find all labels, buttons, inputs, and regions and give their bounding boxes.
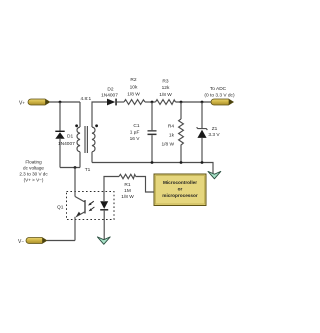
svg-text:R4: R4 (168, 124, 174, 130)
svg-text:(0 to 3.3 V dc): (0 to 3.3 V dc) (204, 93, 235, 99)
svg-text:D1: D1 (67, 134, 73, 140)
svg-text:R2: R2 (130, 77, 136, 83)
ground (left) (97, 237, 110, 244)
node R4 bus junction (180, 161, 183, 164)
svg-text:1 µF: 1 µF (130, 130, 140, 136)
svg-text:Z1: Z1 (212, 126, 218, 132)
ground (right) (208, 171, 221, 178)
node R4 junction (180, 101, 183, 104)
zener Z1 (197, 102, 221, 163)
svg-text:(V+ > V−): (V+ > V−) (24, 178, 44, 183)
node C1 junction (151, 101, 154, 104)
svg-text:1k: 1k (169, 133, 175, 139)
wire emitter to V- (47, 240, 75, 242)
svg-text:or: or (178, 187, 183, 192)
diode D2 (101, 87, 124, 106)
LED (optocoupler diode) (100, 201, 108, 239)
node Vs junction (59, 101, 62, 104)
svg-text:1N4007: 1N4007 (101, 92, 118, 98)
wire R1 to box (136, 177, 154, 193)
svg-text:To ADC: To ADC (210, 86, 227, 92)
svg-text:dc voltage: dc voltage (23, 166, 44, 171)
note floating voltage (19, 160, 48, 183)
resistor R2 (124, 77, 145, 104)
svg-text:1M: 1M (124, 188, 131, 194)
node Z1 junction (201, 101, 204, 104)
svg-text:10k: 10k (130, 84, 138, 90)
svg-text:C1: C1 (133, 123, 139, 129)
svg-text:1/8 W: 1/8 W (161, 142, 174, 148)
resistor R1 (119, 174, 136, 200)
svg-text:D2: D2 (107, 87, 113, 93)
node C1 bus junction (151, 161, 154, 164)
microcontroller block (154, 174, 206, 206)
optocoupler Q1 dashed box (67, 192, 115, 220)
wire R3 to ADC connector (176, 101, 212, 103)
svg-text:4.8:1: 4.8:1 (80, 96, 91, 102)
svg-text:1/8 W: 1/8 W (121, 194, 134, 200)
svg-text:T1: T1 (85, 167, 91, 173)
node Z1 bus junction (201, 161, 204, 164)
svg-text:3.3 V: 3.3 V (208, 132, 220, 138)
capacitor C1 (130, 102, 157, 163)
transformer T1 (75, 96, 107, 173)
svg-text:1/8 W: 1/8 W (127, 92, 140, 98)
diode D1 (55, 102, 75, 168)
svg-text:microprocessor: microprocessor (162, 193, 198, 198)
connector To ADC (204, 86, 235, 105)
svg-text:Floating: Floating (25, 160, 42, 165)
svg-text:12k: 12k (162, 85, 170, 91)
connector V- (18, 238, 47, 245)
transistor Q1 phototransistor (75, 168, 86, 241)
wire primary bottom rail (60, 167, 80, 169)
light arrows (88, 201, 94, 211)
svg-text:1/8 W: 1/8 W (159, 92, 172, 98)
svg-text:2.3 to 30 V dc: 2.3 to 30 V dc (19, 172, 48, 177)
svg-text:R1: R1 (124, 182, 130, 188)
svg-text:1N4007: 1N4007 (58, 141, 75, 147)
svg-text:R3: R3 (162, 79, 168, 85)
svg-text:Microcontroller: Microcontroller (163, 180, 197, 185)
wire Vs rail (50, 101, 80, 103)
resistor R4 (161, 102, 183, 163)
svg-text:16 V: 16 V (130, 136, 141, 142)
resistor R3 (156, 79, 176, 105)
connector V+ (19, 99, 50, 106)
wire R1 row to box (104, 177, 119, 202)
wire secondary ground bus (92, 163, 213, 174)
node collector junction (74, 166, 77, 169)
wire R2 to R3 (145, 101, 156, 103)
svg-text:Q1: Q1 (57, 205, 64, 211)
